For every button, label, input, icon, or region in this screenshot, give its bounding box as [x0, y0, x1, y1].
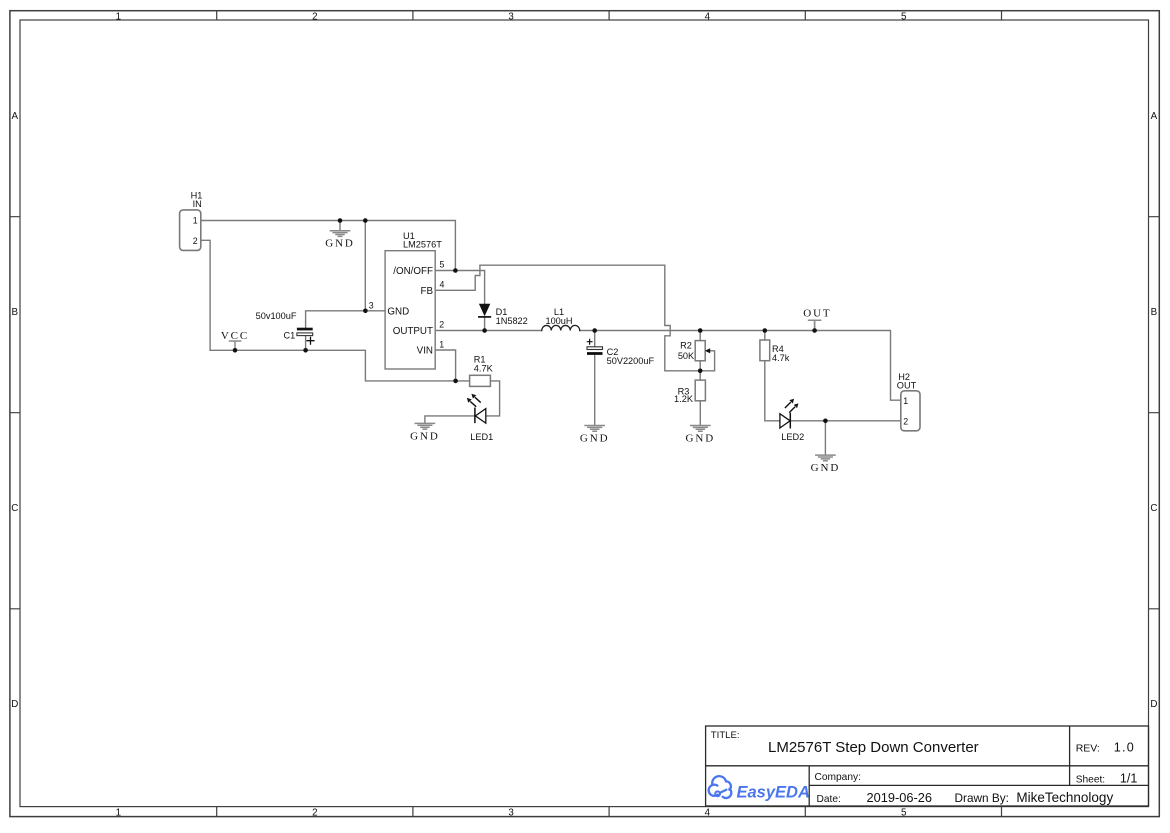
EasyEDA logo — [709, 776, 810, 801]
svg-text:50V2200uF: 50V2200uF — [607, 356, 655, 366]
svg-text:LM2576T: LM2576T — [403, 240, 442, 250]
LED LED2 — [780, 399, 804, 442]
svg-text:GND: GND — [387, 306, 409, 317]
svg-text:5: 5 — [440, 260, 445, 270]
svg-text:1.0: 1.0 — [1114, 741, 1135, 755]
junction C2 on OUTPUT net — [592, 328, 597, 333]
svg-text:Company:: Company: — [815, 772, 861, 783]
svg-text:3: 3 — [508, 808, 514, 819]
svg-text:1: 1 — [193, 216, 198, 226]
power flag VCC — [221, 330, 249, 350]
svg-text:1/1: 1/1 — [1120, 772, 1137, 786]
wire VIN pin to R1 node — [435, 350, 455, 381]
svg-text:1.2K: 1.2K — [674, 394, 694, 404]
svg-text:FB: FB — [420, 286, 433, 297]
svg-text:VIN: VIN — [417, 346, 433, 357]
svg-text:Drawn By:: Drawn By: — [955, 791, 1009, 805]
capacitor C1 — [256, 311, 314, 344]
svg-text:1: 1 — [903, 396, 908, 406]
ground symbol (LED1) — [410, 423, 440, 442]
TITLE BLOCK — [706, 726, 1149, 806]
svg-text:A: A — [1151, 111, 1158, 122]
svg-text:2: 2 — [312, 808, 317, 819]
svg-text:B: B — [1151, 307, 1158, 318]
svg-text:4: 4 — [440, 280, 445, 290]
junction VIN / R1 node — [453, 379, 458, 384]
wire R2 stubs — [699, 331, 701, 381]
junction U1 pin3 / C1 branch — [363, 309, 368, 314]
junction R2 top on OUTPUT net — [698, 328, 703, 333]
svg-text:4: 4 — [705, 808, 711, 819]
net flag OUT — [803, 307, 831, 330]
wire OUTPUT net left of L1 — [435, 330, 542, 332]
resistor R1 — [470, 354, 494, 386]
junction GND net at U1 pin5 — [453, 268, 458, 273]
resistor R4 — [760, 340, 790, 363]
wire R4 stubs and to LED2 — [765, 331, 780, 421]
svg-text:2: 2 — [312, 11, 317, 22]
ground symbol (LED2) — [811, 455, 841, 474]
svg-text:TITLE:: TITLE: — [711, 730, 740, 741]
junction GND net at ground symbol — [338, 218, 343, 223]
svg-text:LED1: LED1 — [470, 432, 493, 442]
ground symbol (C2) — [580, 426, 610, 445]
wire D1 cathode stub — [484, 317, 486, 331]
svg-text:1: 1 — [439, 340, 444, 350]
wire OUTPUT net right of L1 to H2 pin1 — [580, 331, 901, 401]
svg-text:2: 2 — [903, 416, 908, 426]
wire LED2 to H2 pin2 — [790, 420, 901, 422]
svg-text:GND: GND — [811, 462, 841, 474]
svg-text:GND: GND — [580, 433, 610, 445]
wire C2 stubs — [594, 331, 596, 426]
svg-text:OUTPUT: OUTPUT — [393, 326, 433, 337]
wire R2 wiper to bottom node — [700, 351, 714, 371]
capacitor C2 — [587, 339, 654, 366]
svg-text:50K: 50K — [678, 351, 695, 361]
svg-text:100uH: 100uH — [545, 316, 572, 326]
svg-text:3: 3 — [369, 301, 374, 311]
svg-text:A: A — [12, 111, 19, 122]
svg-text:VCC: VCC — [221, 330, 249, 342]
svg-text:IN: IN — [193, 199, 202, 209]
svg-text:EasyEDA: EasyEDA — [737, 783, 810, 801]
wire OUT flag stub — [814, 320, 816, 330]
inductor L1 — [542, 307, 580, 331]
svg-text:4.7k: 4.7k — [772, 353, 790, 363]
svg-text:4.7K: 4.7K — [474, 364, 494, 374]
svg-text:R2: R2 — [680, 341, 692, 351]
svg-text:50v100uF: 50v100uF — [256, 311, 297, 321]
svg-text:OUT: OUT — [897, 381, 917, 391]
junction OUT flag on OUTPUT net — [812, 328, 817, 333]
junction D1 cathode on OUTPUT net — [482, 328, 487, 333]
wire FB net to R2/R3 node — [435, 265, 700, 371]
wire C1 bottom stub — [305, 336, 307, 351]
SCHEMATIC — [180, 190, 920, 474]
svg-text:2019-06-26: 2019-06-26 — [867, 790, 932, 805]
wire /ON/OFF to D1 anode — [435, 271, 484, 304]
junction LED2 cathode / GND — [823, 419, 828, 424]
svg-text:3: 3 — [508, 11, 514, 22]
junction GND net to U1 pin3 branch — [363, 218, 368, 223]
svg-text:5: 5 — [901, 11, 907, 22]
svg-text:4: 4 — [705, 11, 711, 22]
svg-text:GND: GND — [686, 432, 716, 444]
svg-text:OUT: OUT — [803, 307, 831, 319]
svg-text:LM2576T Step Down Converter: LM2576T Step Down Converter — [768, 739, 979, 756]
svg-text:2: 2 — [193, 236, 198, 246]
wire R1 to LED1 anode — [486, 381, 500, 416]
svg-text:1: 1 — [116, 11, 121, 22]
svg-text:MikeTechnology: MikeTechnology — [1016, 790, 1113, 805]
connector H1 — [180, 190, 203, 250]
svg-text:D: D — [11, 699, 18, 710]
junction VCC flag — [233, 348, 238, 353]
junction R4 top on OUTPUT net — [763, 328, 768, 333]
svg-text:5: 5 — [901, 808, 907, 819]
svg-text:1N5822: 1N5822 — [496, 316, 528, 326]
diode D1 1N5822 — [479, 304, 528, 327]
svg-text:B: B — [12, 307, 19, 318]
svg-text:1: 1 — [116, 808, 121, 819]
wire GND vertical link — [364, 221, 366, 311]
svg-text:LED2: LED2 — [781, 432, 804, 442]
wire GND net: H1 pin1 to /ON/OFF — [201, 221, 456, 271]
junction R2/R3/FB node — [698, 369, 703, 374]
svg-text:D: D — [1150, 699, 1157, 710]
svg-text:Sheet:: Sheet: — [1076, 774, 1105, 785]
resistor R3 — [674, 380, 705, 404]
wire VCC net: H1 pin2, VCC rail, under U1 to R1 — [201, 240, 470, 381]
junction C1 negative lead — [303, 348, 308, 353]
ground symbol (top, near H1) — [325, 221, 355, 250]
ground symbol (R3) — [686, 426, 716, 445]
svg-text:REV:: REV: — [1076, 742, 1100, 754]
svg-text:/ON/OFF: /ON/OFF — [393, 266, 433, 277]
wire R3 to GND — [699, 401, 701, 425]
svg-text:GND: GND — [410, 431, 440, 443]
svg-text:Date:: Date: — [817, 794, 841, 805]
svg-text:C1: C1 — [283, 331, 295, 341]
IC U1 LM2576T — [369, 231, 445, 369]
svg-text:2: 2 — [439, 320, 444, 330]
wire LED2 GND stub — [824, 421, 826, 455]
wire LED1 cathode to GND — [425, 416, 475, 423]
svg-text:C: C — [1150, 503, 1157, 514]
connector H2 — [897, 372, 920, 431]
svg-text:GND: GND — [325, 237, 355, 249]
potentiometer R2 — [678, 341, 710, 361]
svg-text:C: C — [11, 503, 18, 514]
LED LED1 — [467, 394, 493, 442]
wire U1 pin3 GND to C1 top — [306, 311, 386, 328]
